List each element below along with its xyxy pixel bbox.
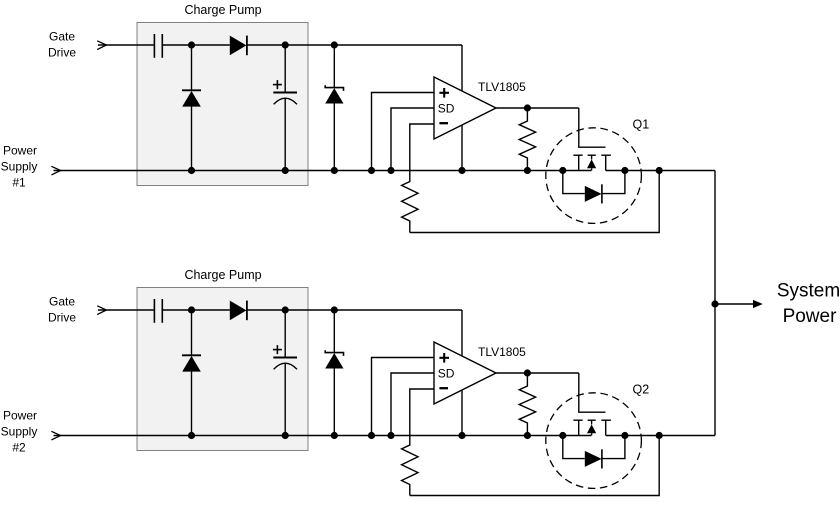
node reservoir cap top 1 (282, 41, 289, 48)
net label Gate Drive (channel 2) (48, 295, 76, 325)
node output / gate resistor 1 (524, 104, 531, 111)
svg-text:Charge Pump: Charge Pump (184, 3, 261, 17)
svg-text:#1: #1 (12, 176, 26, 190)
wire gate drive input 1 (98, 44, 154, 46)
wire power supply rail 2 (right of Q2) (606, 435, 715, 437)
node schottky top 1 (331, 41, 338, 48)
node output / gate resistor 2 (524, 369, 531, 376)
label System Power (777, 281, 840, 327)
capacitor C2 reservoir cap (polarized) (273, 45, 297, 171)
wire power supply rail 1 (right of Q1) (606, 170, 715, 172)
resistor R3 gate pulldown (519, 373, 535, 436)
capacitor C1 pump cap (154, 34, 162, 58)
input arrow Power Supply #1 (51, 166, 60, 175)
svg-text:Charge Pump: Charge Pump (184, 268, 261, 282)
svg-text:Power: Power (3, 409, 37, 423)
label TLV1805 (2) (478, 345, 526, 359)
net label Gate Drive (channel 1) (48, 30, 76, 60)
label TLV1805 (1) (478, 80, 526, 94)
node system power tap (711, 300, 718, 307)
input arrow Gate Drive 2 (97, 306, 106, 315)
charge pump box 2 (137, 288, 308, 451)
op-amp U1 TLV1805 comparator (434, 77, 496, 139)
dashed circle around Q1 (546, 128, 642, 224)
rail junction dots 2 (188, 432, 663, 439)
wire comparator output 2 (496, 372, 579, 374)
wire feedback bottom 2 (410, 436, 659, 496)
wire gate drive input 2 (98, 309, 154, 311)
svg-text:System: System (777, 281, 840, 302)
wire diode to corner 1 (247, 44, 462, 46)
svg-text:Power: Power (783, 306, 838, 327)
diode D2 clamp diode (182, 45, 201, 171)
net label Power Supply #1 (1, 144, 38, 190)
capacitor C3 pump cap (154, 299, 162, 323)
arrow System Power output (715, 300, 763, 308)
svg-text:TLV1805: TLV1805 (478, 80, 526, 94)
svg-text:TLV1805: TLV1805 (478, 345, 526, 359)
label Q1 (633, 117, 650, 131)
charge pump box 1 (137, 23, 308, 186)
op-amp U2 TLV1805 comparator (434, 342, 496, 404)
transistor Q2 back-to-back MOSFET (563, 420, 625, 468)
wire comparator + input to rail 2 (372, 358, 435, 436)
input arrow Power Supply #2 (51, 431, 60, 440)
wire comparator - input 1 (410, 124, 434, 178)
transistor Q1 back-to-back MOSFET (563, 155, 625, 203)
wire power supply rail 1 (left) (54, 170, 592, 172)
label Charge Pump 2 (184, 268, 261, 282)
rail junction dots 1 (188, 167, 663, 174)
svg-text:Q2: Q2 (633, 382, 650, 396)
diode D3 schottky diode (325, 45, 343, 171)
diode D1 series pump diode (230, 36, 247, 56)
wire comparator - input 2 (410, 389, 434, 441)
wire cap to diode node 2 (163, 309, 230, 311)
wire boost rail down to comparator V+ 1 (461, 45, 463, 171)
node pump cap / clamp diode 1 (188, 41, 195, 48)
wire system power bus (714, 171, 716, 436)
capacitor C4 reservoir cap (polarized) (273, 310, 297, 436)
wire boost rail down to comparator V+ 2 (461, 310, 463, 436)
dashed circle around Q2 (546, 393, 642, 489)
wire feedback bottom 1 (410, 171, 659, 233)
wire comparator output 1 (496, 107, 579, 109)
svg-text:SD: SD (438, 101, 455, 115)
node pump cap / clamp diode 2 (188, 306, 195, 313)
label Q2 (633, 382, 650, 396)
wire gate drive to Q2 (579, 373, 606, 412)
node reservoir cap top 2 (282, 306, 289, 313)
diode D6 schottky diode (325, 310, 343, 436)
wire cap to diode node 1 (163, 44, 230, 46)
svg-text:Power: Power (3, 144, 37, 158)
svg-text:Gate: Gate (49, 30, 75, 44)
svg-text:SD: SD (438, 366, 455, 380)
resistor R1 gate pulldown (519, 108, 535, 171)
node schottky top 2 (331, 306, 338, 313)
wire gate drive to Q1 (579, 108, 606, 147)
svg-text:Supply: Supply (1, 160, 38, 174)
svg-text:Drive: Drive (48, 311, 76, 325)
svg-text:Supply: Supply (1, 425, 38, 439)
diode D5 clamp diode (182, 310, 201, 436)
wire comparator + input to rail 1 (372, 93, 435, 171)
input arrow Gate Drive 1 (97, 41, 106, 50)
wire comparator SD input to rail 2 (391, 373, 434, 436)
resistor R4 feedback divider (402, 441, 418, 496)
diode D4 series pump diode (230, 301, 247, 321)
svg-text:Gate: Gate (49, 295, 75, 309)
net label Power Supply #2 (1, 409, 38, 455)
wire power supply rail 2 (left) (54, 435, 592, 437)
svg-text:Drive: Drive (48, 46, 76, 60)
svg-text:#2: #2 (12, 441, 26, 455)
svg-text:Q1: Q1 (633, 117, 650, 131)
resistor R2 feedback divider (402, 178, 418, 233)
wire diode to corner 2 (247, 309, 462, 311)
label Charge Pump 1 (184, 3, 261, 17)
wire comparator SD input to rail 1 (391, 108, 434, 171)
